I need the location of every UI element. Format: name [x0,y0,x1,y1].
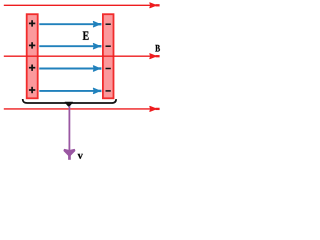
E-field arrow row 3 [39,66,101,71]
velocity arrow v [64,106,75,160]
left capacitor plate (positive) [27,14,38,98]
minus sign row 4 [106,90,111,92]
E-field arrow row 2 [39,44,101,49]
label B [155,45,160,52]
label v [78,154,83,159]
plus sign row 1 [29,20,35,26]
minus sign row 3 [106,68,111,70]
plus sign row 4 [29,87,35,93]
B-field line top [4,3,160,8]
E-field arrow row 4 [39,88,101,93]
plus sign row 2 [29,42,35,48]
E-field arrow row 1 [39,22,101,27]
right capacitor plate (negative) [103,14,114,98]
plus sign row 3 [29,65,35,71]
label E [83,31,89,39]
B-field line bottom [4,106,160,111]
brace under plates [23,99,116,103]
minus sign row 1 [106,23,111,25]
B-field line middle [4,54,160,59]
brace center wedge [65,102,73,107]
minus sign row 2 [106,45,111,47]
